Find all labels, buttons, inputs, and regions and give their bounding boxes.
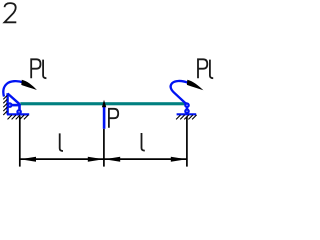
ground hatching left [8,115,29,120]
horizontal link of left support [8,104,20,107]
moment arrowhead left [21,80,37,90]
moment arc right [171,81,189,104]
extension line left [19,116,21,166]
label P [109,109,118,128]
extension line center [103,129,105,167]
force P shaft [103,106,106,129]
label problem number 2 [5,3,17,22]
dimension arrow right outward [171,157,187,162]
label Pl left [31,59,46,78]
beam [20,102,187,105]
wall line of left fixed support [6,93,8,114]
dimension arrow center pointing right [88,157,104,162]
ground hatching right [176,115,197,120]
pin on ground left [17,110,20,113]
vertical link of right support [186,105,189,111]
pin on ground right [185,110,188,113]
vertical link of left support [18,104,21,112]
ground line of right support [177,113,197,115]
label Pl right [198,59,213,78]
label l right span [142,133,145,151]
force P arrowhead [102,100,106,108]
dimension arrow center pointing left [104,157,120,162]
pin on wall [8,103,11,106]
dimension arrow left outward [20,157,36,162]
label l left span [60,133,63,151]
extension line right [186,117,188,167]
pin at beam end right [185,104,188,107]
diagonal link of left support [8,94,20,105]
ground line of left support [7,113,29,115]
moment arc left [3,81,23,96]
wall hatching [3,95,7,115]
moment arrowhead right [187,80,204,91]
dimension line [20,158,187,160]
